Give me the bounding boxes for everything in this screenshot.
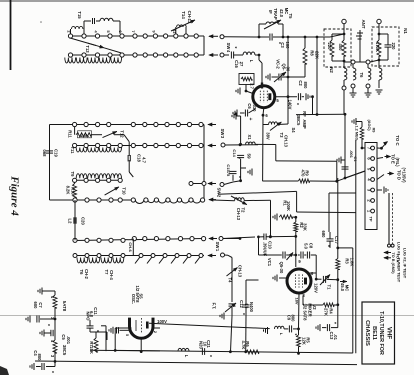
svg-text:C18: C18 — [137, 154, 142, 162]
svg-text:400: 400 — [338, 44, 343, 52]
svg-text:*: * — [48, 371, 54, 373]
svg-text:T10: T10 — [122, 187, 127, 195]
svg-text:*: * — [235, 157, 241, 159]
svg-text:TO C: TO C — [395, 135, 400, 146]
svg-text:C16: C16 — [234, 60, 239, 68]
svg-text:C10: C10 — [268, 241, 273, 249]
svg-text:C8: C8 — [309, 243, 314, 249]
svg-text:RF: RF — [302, 111, 307, 117]
svg-text:TRAP: TRAP — [273, 8, 278, 20]
svg-text:*: * — [206, 355, 212, 357]
svg-text:(+135V): (+135V) — [402, 167, 407, 183]
svg-text:T3: T3 — [279, 133, 284, 139]
svg-text:(AGC): (AGC) — [367, 120, 371, 132]
svg-text:R9: R9 — [305, 170, 310, 176]
svg-text:CH.13: CH.13 — [284, 135, 289, 148]
svg-text:VC1: VC1 — [267, 258, 272, 267]
svg-text:T7: T7 — [104, 270, 109, 276]
svg-text:*: * — [231, 47, 237, 49]
svg-text:T2: T2 — [241, 208, 246, 214]
svg-text:Q5-30: Q5-30 — [279, 262, 284, 274]
svg-text:27: 27 — [239, 62, 244, 67]
svg-text:VHF: VHF — [386, 327, 393, 340]
svg-text:33K: 33K — [303, 223, 308, 231]
svg-text:LUG #2, IF TEST: LUG #2, IF TEST — [403, 248, 408, 279]
svg-text:T9: T9 — [70, 172, 75, 178]
svg-text:SW: SW — [217, 188, 222, 195]
svg-text:L: L — [184, 355, 189, 358]
svg-text:TO E: TO E — [391, 154, 396, 164]
svg-text:600: 600 — [33, 302, 38, 310]
svg-text:C6: C6 — [247, 103, 252, 109]
svg-text:*: * — [44, 324, 50, 326]
svg-text:L: L — [249, 60, 254, 63]
svg-text:22K: 22K — [315, 51, 320, 59]
svg-text:.01: .01 — [333, 334, 338, 340]
svg-text:800: 800 — [291, 315, 296, 323]
svg-text:S4: S4 — [291, 127, 296, 133]
svg-text:5AT8: 5AT8 — [62, 301, 67, 312]
svg-text:N1: N1 — [403, 28, 408, 34]
svg-text:C7: C7 — [38, 302, 43, 308]
svg-text:T5: T5 — [288, 14, 293, 20]
svg-text:3BC5: 3BC5 — [296, 115, 301, 126]
svg-text:R3: R3 — [345, 258, 350, 264]
svg-text:C5: C5 — [61, 334, 66, 340]
svg-text:C2: C2 — [298, 80, 303, 86]
svg-text:1.2 MEG: 1.2 MEG — [355, 126, 359, 141]
svg-text:45.0: 45.0 — [340, 283, 345, 292]
svg-text:C20: C20 — [81, 217, 86, 225]
svg-text:1.8K: 1.8K — [350, 258, 355, 267]
svg-text:2.7: 2.7 — [250, 83, 255, 89]
svg-text:42.0: 42.0 — [279, 9, 284, 18]
svg-text:TO D: TO D — [397, 170, 402, 180]
svg-text:4.7K: 4.7K — [241, 341, 246, 350]
svg-text:27K: 27K — [324, 308, 329, 316]
svg-text:R9: R9 — [372, 128, 376, 133]
svg-text:MC: MC — [345, 285, 350, 292]
svg-text:5.0: 5.0 — [304, 243, 309, 249]
svg-text:T6: T6 — [359, 73, 364, 79]
svg-text:X1: X1 — [247, 134, 252, 140]
svg-text:T6: T6 — [79, 270, 84, 276]
svg-text:T11: T11 — [70, 147, 75, 155]
svg-text:068: 068 — [42, 150, 47, 158]
svg-text:C12: C12 — [239, 300, 244, 308]
svg-text:T1: T1 — [327, 285, 332, 291]
svg-text:CH-13: CH-13 — [238, 265, 243, 278]
svg-text:*: * — [293, 103, 299, 105]
svg-text:.39UUF: .39UUF — [263, 242, 268, 257]
svg-text:TP: TP — [369, 216, 374, 221]
svg-text:ANT: ANT — [361, 19, 366, 28]
svg-text:IF: IF — [268, 10, 273, 14]
svg-text:75: 75 — [226, 172, 231, 177]
svg-text:T13: T13 — [85, 45, 90, 53]
svg-text:N400: N400 — [249, 302, 254, 313]
svg-text:2: 2 — [153, 331, 157, 333]
svg-text:TO A: TO A — [396, 254, 400, 263]
svg-text:8.2K: 8.2K — [66, 186, 71, 195]
svg-text:R5: R5 — [306, 337, 311, 343]
svg-text:*: * — [235, 176, 241, 178]
svg-text:100K: 100K — [286, 201, 291, 211]
svg-text:+: + — [247, 118, 253, 121]
svg-text:38C5: 38C5 — [62, 345, 67, 356]
svg-text:(FIL): (FIL) — [395, 157, 400, 167]
svg-text:4.7: 4.7 — [142, 157, 147, 163]
svg-text:1/2 5AT8: 1/2 5AT8 — [303, 304, 308, 322]
svg-text:SW: SW — [220, 129, 225, 136]
svg-text:*: * — [239, 313, 245, 315]
svg-text:F.T.: F.T. — [212, 303, 217, 310]
svg-text:800: 800 — [303, 82, 308, 90]
svg-text:*: * — [291, 334, 297, 336]
svg-text:CH-4: CH-4 — [109, 270, 114, 280]
svg-text:AMP: AMP — [302, 119, 307, 129]
svg-text:C3: C3 — [280, 42, 285, 48]
svg-text:SW: SW — [215, 242, 220, 249]
svg-text:CH-13: CH-13 — [236, 208, 241, 221]
svg-text:T14: T14 — [181, 11, 186, 19]
svg-text:120V: 120V — [314, 283, 319, 293]
svg-text:R4: R4 — [329, 308, 334, 314]
svg-text:1.5K: 1.5K — [80, 133, 90, 138]
svg-text:220: 220 — [327, 43, 332, 51]
svg-text:CHASSIS: CHASSIS — [364, 320, 370, 346]
svg-text:5: 5 — [125, 334, 129, 336]
svg-text:800: 800 — [37, 354, 42, 362]
svg-text:38V: 38V — [266, 132, 271, 140]
svg-text:N20: N20 — [199, 341, 204, 349]
svg-text:59: 59 — [247, 153, 252, 159]
svg-text:Figure 4: Figure 4 — [9, 175, 21, 216]
svg-text:NPO: NPO — [86, 311, 91, 321]
svg-text:330: 330 — [252, 105, 257, 113]
svg-text:T-10,TUNER FOR: T-10,TUNER FOR — [378, 311, 384, 355]
svg-text:L2: L2 — [68, 219, 73, 225]
svg-text:SW: SW — [226, 43, 231, 50]
svg-text:470K: 470K — [375, 42, 380, 52]
svg-text:*: * — [331, 322, 337, 324]
svg-text:.001: .001 — [66, 336, 71, 345]
svg-text:OSC.: OSC. — [131, 294, 136, 304]
svg-text:T15: T15 — [77, 11, 82, 19]
svg-text:R11: R11 — [68, 130, 73, 138]
svg-text:30: 30 — [286, 67, 291, 72]
svg-text:220: 220 — [391, 43, 396, 51]
svg-text:TO B (GND): TO B (GND) — [391, 252, 395, 274]
svg-text:*: * — [324, 245, 330, 247]
svg-text:BE11: BE11 — [371, 326, 377, 340]
svg-text:680: 680 — [321, 231, 326, 239]
svg-text:C1: C1 — [353, 156, 358, 162]
svg-text:C19: C19 — [54, 149, 59, 157]
svg-text:CH-6: CH-6 — [128, 242, 133, 252]
svg-text:R10: R10 — [71, 187, 76, 195]
svg-text:CH-2: CH-2 — [84, 269, 89, 279]
svg-text:R8: R8 — [310, 50, 315, 56]
svg-text:N2: N2 — [329, 67, 334, 73]
svg-text:VC-2: VC-2 — [276, 59, 281, 69]
